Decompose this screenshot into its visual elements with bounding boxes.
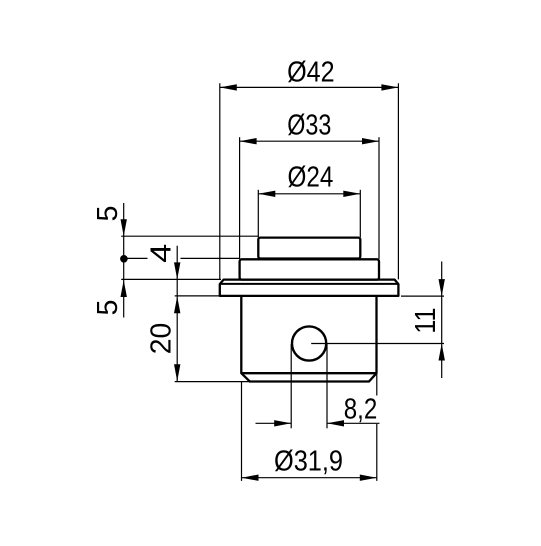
arrow Ø33 left bbox=[240, 138, 257, 144]
ext line Ø42 left bbox=[219, 83, 221, 279]
dim line 8,2 left tail bbox=[256, 422, 292, 424]
dim line 4 and 20 (shared vertical) bbox=[176, 246, 178, 381]
arrow Ø24 left bbox=[258, 191, 275, 197]
svg-text:Ø33: Ø33 bbox=[287, 110, 331, 142]
arrow 5 bottom (up) bbox=[121, 280, 127, 297]
ext line flange bottom (left) bbox=[175, 295, 220, 297]
arrow 4 (down) bbox=[174, 262, 180, 279]
svg-text:5: 5 bbox=[92, 300, 124, 316]
svg-text:4: 4 bbox=[146, 244, 178, 263]
ext line hole centre (right) bbox=[311, 343, 444, 345]
arrow Ø42 left bbox=[220, 84, 237, 90]
flange chamfer edge line bbox=[221, 283, 398, 285]
dim line Ø24 bbox=[258, 193, 360, 195]
arrow 11 top (down, outside) bbox=[439, 279, 445, 296]
arrow 5 top (down) bbox=[121, 219, 127, 236]
dim line 5 top / 5 bottom (shared vertical) bbox=[123, 203, 125, 318]
ext line Ø42 right bbox=[397, 83, 399, 279]
svg-text:20: 20 bbox=[146, 323, 178, 355]
dim line 11 bbox=[441, 262, 443, 379]
ext line Ø24 right bbox=[359, 190, 361, 238]
ext line flange bottom (right) bbox=[401, 295, 444, 297]
arrows (filled) bbox=[120, 84, 445, 481]
dim line Ø42 bbox=[220, 86, 399, 88]
ext line button top (left) bbox=[121, 235, 258, 237]
arrow 11 bottom (up, outside) bbox=[439, 344, 445, 361]
svg-text:Ø42: Ø42 bbox=[287, 57, 335, 89]
svg-text:Ø31,9: Ø31,9 bbox=[274, 445, 343, 477]
arrow 20 bottom (down) bbox=[174, 364, 180, 381]
arrow Ø42 right bbox=[381, 84, 398, 90]
part outline: flange (Ø42) with chamfered top corners bbox=[220, 280, 399, 296]
svg-text:11: 11 bbox=[410, 308, 442, 334]
ext line Ø31,9 right lower segment bbox=[376, 424, 378, 481]
arrow Ø24 right bbox=[343, 191, 360, 197]
cross hole Ø8.2 bbox=[292, 326, 326, 360]
svg-text:Ø24: Ø24 bbox=[288, 162, 334, 194]
ext line Ø31,9 right upper segment bbox=[376, 374, 378, 395]
part outline: middle section (Ø33) bbox=[240, 259, 379, 279]
ext line Ø33 left bbox=[239, 137, 241, 259]
arrow Ø31,9 right bbox=[360, 475, 377, 481]
body chamfer start line bbox=[241, 372, 376, 374]
thin lines group bbox=[121, 83, 444, 481]
dim line Ø33 bbox=[240, 140, 379, 142]
ext line Ø24 left bbox=[257, 190, 259, 238]
arrow Ø33 right bbox=[362, 138, 379, 144]
arrow 8,2 left (right-pointing, outside) bbox=[274, 420, 291, 426]
ext line flange top (left) bbox=[121, 278, 221, 280]
svg-text:5: 5 bbox=[92, 206, 124, 222]
dim line Ø31,9 bbox=[242, 477, 377, 479]
ext line button base: dot tick bbox=[124, 257, 148, 259]
arrow 8,2 right (left-pointing, outside) bbox=[327, 420, 344, 426]
ext line body bottom (left) bbox=[175, 381, 250, 383]
ext line Ø33 right bbox=[378, 137, 380, 259]
arrow Ø31,9 left bbox=[242, 475, 259, 481]
ext line Ø31,9 left bbox=[241, 382, 243, 481]
svg-text:8,2: 8,2 bbox=[344, 393, 378, 425]
part outline: body (Ø31.9) with chamfered bottom bbox=[241, 296, 376, 382]
ext line hole right tangent bbox=[326, 344, 328, 428]
arrow 20 top (up) bbox=[174, 296, 180, 313]
dim line 8,2 right tail bbox=[327, 422, 380, 424]
dot terminator at button base bbox=[120, 255, 128, 263]
ext line button base (right of label 4) bbox=[181, 257, 240, 259]
ext line hole left tangent bbox=[290, 344, 292, 428]
part outline: button top section (Ø24) bbox=[258, 238, 360, 259]
